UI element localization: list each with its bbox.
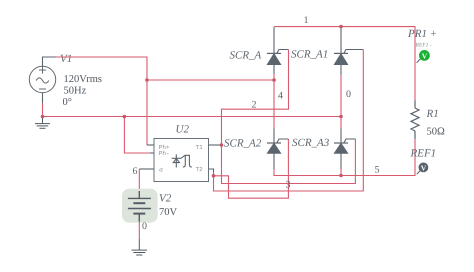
wire V1 bottom xyxy=(42,103,44,117)
svg-text:0: 0 xyxy=(142,221,147,232)
wire V1 top to Ph+ column xyxy=(56,57,147,80)
wire to U2 Ph- xyxy=(124,117,150,154)
node dot phase top xyxy=(145,78,149,82)
svg-text:α: α xyxy=(159,166,163,174)
U2 internal symbol xyxy=(172,154,192,167)
thyristor SCR_A3 xyxy=(334,139,355,153)
SCR_A1 bottom lead xyxy=(340,65,342,76)
svg-text:V: V xyxy=(421,163,427,172)
wire down to U2 Ph+ xyxy=(146,80,148,145)
svg-text:SCR_A3: SCR_A3 xyxy=(292,137,330,149)
wire ground bus xyxy=(43,116,342,118)
probe REF1 xyxy=(417,163,429,175)
U2 phase control box xyxy=(154,139,209,182)
svg-text:70V: 70V xyxy=(159,207,178,218)
svg-text:V1: V1 xyxy=(60,53,72,65)
svg-text:0: 0 xyxy=(346,89,351,100)
svg-text:50Hz: 50Hz xyxy=(64,86,87,97)
node 5 wire: bridge output to load xyxy=(274,139,415,176)
node dot SCR_A3 anode xyxy=(339,174,343,178)
node dot V1 ground xyxy=(41,115,45,119)
svg-text:SCR_A2: SCR_A2 xyxy=(224,138,262,150)
SCR_A1 top lead xyxy=(340,27,342,54)
svg-text:50Ω: 50Ω xyxy=(427,127,446,138)
svg-text:0°: 0° xyxy=(63,97,72,108)
svg-text:REF1 -: REF1 - xyxy=(415,43,432,49)
V1 top lead xyxy=(43,57,57,66)
svg-text:SCR_A1: SCR_A1 xyxy=(291,49,328,61)
AC source V1 xyxy=(29,66,55,92)
svg-text:3: 3 xyxy=(286,180,291,191)
wire T2 to branches xyxy=(213,172,215,176)
V1 bottom lead xyxy=(42,93,44,103)
svg-text:1: 1 xyxy=(304,15,309,26)
net 3 wire: SCR_A gate to T1 to SCR_A3 gate xyxy=(222,50,356,184)
svg-text:2: 2 xyxy=(252,100,257,111)
node 1 wire (top) xyxy=(274,27,415,101)
wire phase node to SCR_A anode xyxy=(147,79,274,81)
svg-text:6: 6 xyxy=(133,166,138,177)
node dot Ph- branch xyxy=(123,115,127,119)
thyristor SCR_A1 xyxy=(334,50,363,65)
node dot node1 SCR_A1 xyxy=(339,25,343,29)
wire T2 to SCR_A1 gate xyxy=(214,50,364,192)
svg-text:5: 5 xyxy=(375,165,380,176)
SCR_A2 top lead xyxy=(273,129,275,144)
ground for V2 xyxy=(132,239,148,255)
U2 pin stub Ph- xyxy=(150,152,154,154)
thyristor SCR_A xyxy=(267,50,289,65)
battery V2 xyxy=(128,191,151,221)
wire V2 to ground xyxy=(138,221,140,239)
svg-text:V2: V2 xyxy=(159,193,172,205)
U2 pin stub alpha xyxy=(139,168,154,170)
ground for V1 xyxy=(35,117,50,129)
thyristor SCR_A2 xyxy=(267,139,288,153)
node dot T2 xyxy=(212,174,216,178)
svg-text:PR1 +: PR1 + xyxy=(407,28,437,40)
probe PR1 xyxy=(417,50,430,63)
wire SCR_A to SCR_A2 (node 4 column) xyxy=(273,80,275,129)
U2 pin stub T2 xyxy=(209,169,214,172)
svg-text:U2: U2 xyxy=(176,124,190,136)
wire SCR_A1 anode to ground bus xyxy=(340,75,342,117)
SCR_A top lead xyxy=(273,27,275,53)
svg-text:4: 4 xyxy=(278,91,283,102)
svg-text:120Vrms: 120Vrms xyxy=(64,74,102,85)
node dot SCR_A1 anode xyxy=(339,115,343,119)
wire ground bus down to SCR_A3 xyxy=(340,117,342,129)
U2 pin stub T1 xyxy=(209,144,222,146)
U2 pin stub Ph+ xyxy=(147,144,154,146)
SCR_A bottom lead xyxy=(273,65,275,75)
wire alpha to V2 xyxy=(138,169,140,191)
SCR_A3 bottom lead xyxy=(340,153,342,169)
node dot T1 xyxy=(220,143,224,147)
node dot SCR_A anode xyxy=(272,78,276,82)
svg-text:T1: T1 xyxy=(196,144,204,151)
svg-text:Ph-: Ph- xyxy=(159,150,170,157)
svg-text:SCR_A: SCR_A xyxy=(230,50,262,62)
SCR_A2 bottom lead xyxy=(273,153,275,169)
wire SCR_A anode to node dot xyxy=(273,74,275,80)
svg-text:REF1: REF1 xyxy=(410,148,437,160)
resistor R1 xyxy=(411,101,419,140)
svg-text:V: V xyxy=(422,51,428,60)
wire SCR_A3 anode stub xyxy=(340,169,342,176)
wire T2 to SCR_A2 gate xyxy=(214,139,289,198)
svg-text:R1: R1 xyxy=(426,108,439,120)
SCR_A3 top lead xyxy=(340,129,342,144)
svg-text:T2: T2 xyxy=(196,166,204,173)
battery V2 background xyxy=(122,189,158,223)
